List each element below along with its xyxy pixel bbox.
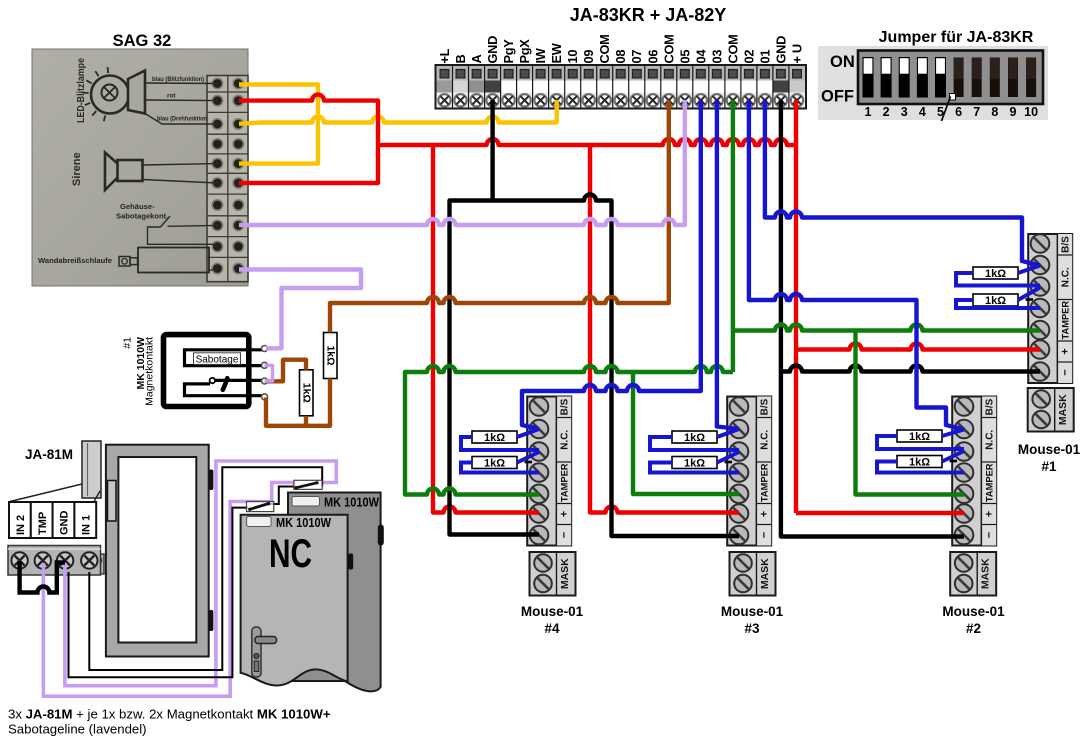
svg-text:1kΩ: 1kΩ: [301, 383, 313, 403]
resistor 1kOhm R1 at Mouse-01 #1: [973, 267, 1018, 280]
DIP switch 8: [990, 58, 1000, 98]
svg-text:Sabotagekont.: Sabotagekont.: [116, 212, 168, 221]
DIP switch 3: [899, 58, 909, 98]
JA-83KR strip screw terminals: [438, 94, 803, 106]
Mouse-01 #2 MASK terminal block: [950, 552, 996, 596]
detector terminal block Mouse-01 #2: [952, 397, 996, 546]
door frame: [106, 445, 209, 657]
wire: lavender MK terminal 2 to 3 jog: [265, 365, 273, 381]
caption text: [8, 707, 331, 737]
back door (dark) with MK 1010W: [288, 493, 384, 692]
wire: green branch to Mouse-01 #2 TAMPER: [856, 331, 965, 495]
control panel terminal strip JA-83KR + JA-82Y: [436, 5, 807, 109]
MK #1 reed switch: [185, 378, 264, 396]
Mouse-01 #2 title: [942, 604, 1005, 636]
wire: black GND rail to Mouse-01 #4 and #3 minus: [450, 195, 740, 537]
wire: black GND drop from terminal GND: [490, 100, 494, 201]
svg-text:Sirene: Sirene: [71, 152, 83, 186]
wire: red +U bus from SAG vertical to +U terminal: [378, 139, 796, 145]
wire: yellow SAG row3 to terminal EW: [239, 100, 557, 124]
svg-text:MASK: MASK: [559, 558, 571, 589]
wire: lavender SAG row10 to MK terminal 1: [239, 270, 361, 349]
svg-text:1kΩ: 1kΩ: [909, 457, 930, 469]
resistor 1kOhm R2 at Mouse-01 #4: [472, 457, 517, 470]
wire: blue R1 to N.C. terminals Mouse-01 #2: [877, 430, 964, 473]
svg-text:03: 03: [709, 50, 724, 64]
DIP switch 9: [1008, 58, 1018, 98]
svg-text:+ U: + U: [790, 44, 805, 63]
svg-text:PgX: PgX: [517, 39, 532, 64]
svg-text:B/S: B/S: [1060, 236, 1071, 253]
svg-text:N.C.: N.C.: [559, 430, 570, 450]
svg-text:Mouse-01: Mouse-01: [721, 604, 784, 619]
resistor R_B 1kOhm (vertical, to MK sabotage): [300, 370, 314, 416]
Mouse-01 #2 pin labels B/S N.C. TAMPER + -: [983, 398, 995, 538]
wire: black door contact loop from GND to switch A left: [69, 508, 249, 678]
DIP switch 5: [936, 58, 946, 98]
svg-text:3: 3: [901, 105, 908, 119]
wire: red +U vertical from terminal down: [794, 100, 798, 513]
resistor R_A 1kOhm (vertical, to COM bus): [324, 333, 338, 379]
minus polarity mark at Mouse-01 #2: [950, 460, 958, 463]
svg-text:IW: IW: [533, 47, 548, 63]
siren speaker symbol (Sirene): [71, 152, 217, 190]
Mouse-01 #3 title: [721, 604, 784, 636]
resistor 1kOhm R1 at Mouse-01 #4: [472, 431, 517, 444]
Mouse-01 #1 MASK terminal block: [1028, 388, 1074, 432]
wire: green branch to Mouse-01 #3 TAMPER: [633, 372, 739, 494]
svg-text:PgY: PgY: [501, 39, 516, 64]
svg-text:A: A: [469, 55, 484, 64]
svg-text:05: 05: [677, 50, 692, 64]
magnet contact switch A on NC door: [247, 502, 274, 512]
wire: red feed to Mouse-01 #1 +: [796, 344, 1040, 350]
wire: lavender sabotage bus SAG row8 to terminal 05: [239, 100, 685, 225]
svg-text:COM: COM: [725, 35, 740, 64]
door handle and lock: [252, 627, 277, 677]
svg-text:4: 4: [919, 105, 926, 119]
Mouse-01 #2 screws: [955, 397, 974, 544]
svg-text:TAMPER: TAMPER: [759, 463, 769, 502]
svg-text:LED-Blitzlampe: LED-Blitzlampe: [75, 58, 87, 123]
MK #1 terminal pins 1-4: [262, 346, 268, 400]
DIP switch 1: [863, 58, 873, 98]
magnet contact switch B on back door: [294, 480, 322, 489]
svg-text:01: 01: [757, 50, 772, 64]
JA-81M lock tab on frame: [91, 554, 104, 574]
detector terminal block Mouse-01 #1: [1028, 234, 1072, 383]
svg-text:+: +: [1059, 348, 1071, 354]
SAG 32 terminal contacts (2 columns x 10 rows): [212, 78, 243, 273]
svg-text:#3: #3: [744, 621, 760, 636]
wire: blue zone 03 to Mouse-01 #3 N.C.: [717, 100, 739, 429]
svg-text:blau (Blitzfunktion): blau (Blitzfunktion): [152, 76, 204, 83]
wire: blue zone 04 to Mouse-01 #4 N.C.: [522, 100, 701, 429]
svg-text:1: 1: [865, 105, 872, 119]
svg-text:Mouse-01: Mouse-01: [521, 604, 584, 619]
svg-text:+: +: [758, 511, 770, 517]
svg-text:B/S: B/S: [559, 398, 570, 415]
resistor 1kOhm R1 at Mouse-01 #2: [897, 430, 942, 443]
DIP switch 6: [954, 58, 964, 98]
wire: red SAG row2 to row6 via vertical x378: [239, 95, 378, 183]
resistor 1kOhm R1 at Mouse-01 #3: [672, 431, 717, 444]
svg-text:09: 09: [581, 50, 596, 64]
svg-text:10: 10: [565, 50, 580, 64]
svg-text:07: 07: [629, 50, 644, 64]
svg-text:MASK: MASK: [759, 558, 771, 589]
Mouse-01 #1 pin labels B/S N.C. TAMPER + -: [1059, 236, 1071, 376]
svg-text:1kΩ: 1kΩ: [985, 295, 1006, 307]
wire: black door contact loop from IN1 to switch B right: [89, 467, 322, 670]
minus polarity mark at Mouse-01 #1: [1026, 298, 1034, 301]
Mouse-01 #4 title: [521, 604, 584, 636]
svg-text:N.C.: N.C.: [1060, 267, 1071, 287]
svg-text:IN 2: IN 2: [15, 515, 27, 535]
svg-text:Mouse-01: Mouse-01: [1018, 442, 1081, 457]
wire: blue zone 01 to Mouse-01 #1 N.C.: [765, 100, 1040, 266]
svg-text:1kΩ: 1kΩ: [684, 432, 705, 444]
svg-text:−: −: [1059, 369, 1071, 375]
wire: green tamper bus right to Mouse-01 #1 TAMPER: [733, 325, 1040, 331]
svg-text:COM: COM: [661, 35, 676, 64]
svg-text:GND: GND: [59, 511, 71, 536]
JA-83KR terminal pin labels: [437, 35, 805, 64]
wire: green COM vertical: [731, 100, 735, 372]
wire: yellow SAG row1 to SAG row5: [239, 85, 318, 164]
lamp wire leads and labels: blau (Blitzfunktion) / rot / blau (Drehfunktion): [145, 83, 217, 124]
svg-text:IN 1: IN 1: [81, 515, 93, 535]
DIP switch numbers 1-10: [865, 105, 1039, 119]
wire: brown R_B top to MK terminal 3: [267, 360, 306, 382]
svg-text:SAG 32: SAG 32: [113, 32, 172, 50]
Mouse-01 #1 title: [1018, 442, 1081, 474]
svg-text:#1: #1: [1041, 459, 1057, 474]
resistor 1kOhm R2 at Mouse-01 #2: [897, 456, 942, 469]
svg-text:B/S: B/S: [984, 398, 995, 415]
resistor 1kOhm R2 at Mouse-01 #3: [672, 457, 717, 470]
Mouse-01 #3 pin labels B/S N.C. TAMPER + -: [758, 398, 770, 538]
svg-text:1kΩ: 1kΩ: [325, 345, 337, 365]
svg-text:blau (Drehfunktion: blau (Drehfunktion: [157, 116, 207, 123]
wall tear-off loop (Wandabreissschlaufe): [38, 248, 217, 273]
door frame strike plate: [108, 481, 117, 522]
resistor 1kOhm R2 at Mouse-01 #1: [973, 294, 1018, 307]
DIP switch 2: [881, 58, 891, 98]
svg-text:MASK: MASK: [1057, 394, 1069, 425]
wire: blue R1 to N.C. terminals Mouse-01 #4: [461, 429, 539, 473]
wire: red branch x590 to Mouse-01 #3 +: [590, 145, 739, 513]
wire: black jumper IN2 to GND with hop over TMP wire: [20, 561, 65, 593]
svg-text:6: 6: [955, 105, 962, 119]
wire: black GND2 vertical to Mouse-01 #2 minus: [781, 100, 964, 537]
wire: brown R_A bottom to MK terminal 4: [266, 379, 330, 426]
wire: lavender sabotage outer loop (JA-81M GND terminal to MK switch B): [65, 461, 336, 686]
DIP switch 4: [917, 58, 927, 98]
svg-text:3x JA-81M + je 1x bzw. 2x Magn: 3x JA-81M + je 1x bzw. 2x Magnetkontakt …: [8, 707, 331, 722]
MK #1 sabotage loop: [185, 350, 264, 366]
housing tamper switch (Gehaeuse-Sabotagekont.): [116, 202, 217, 244]
svg-text:rot: rot: [167, 93, 176, 100]
Mouse-01 #3 screws: [730, 397, 749, 544]
wire: lavender sabotage inner loop (JA-81M TMP terminal to MK switch B): [43, 483, 295, 697]
wire: green tamper bus left to Mouse-01 #4 TAMPER: [405, 366, 733, 495]
LED flash lamp symbol (LED-Blitzlampe): [75, 58, 145, 123]
svg-text:1kΩ: 1kΩ: [985, 268, 1006, 280]
Mouse-01 #3 MASK terminal block: [730, 552, 776, 596]
svg-text:+: +: [558, 511, 570, 517]
svg-text:02: 02: [741, 50, 756, 64]
svg-text:06: 06: [645, 50, 660, 64]
DIP switch slash marker between 5 and 6: [942, 94, 956, 122]
svg-text:+: +: [983, 511, 995, 517]
svg-text:#1: #1: [122, 337, 134, 349]
svg-text:N.C.: N.C.: [984, 430, 995, 450]
svg-text:1kΩ: 1kΩ: [684, 458, 705, 470]
svg-text:−: −: [758, 532, 770, 538]
Mouse-01 #1 screws: [1031, 234, 1050, 381]
siren module SAG 32: [32, 32, 248, 286]
svg-text:−: −: [983, 532, 995, 538]
svg-text:7: 7: [973, 105, 980, 119]
svg-text:TAMPER: TAMPER: [1060, 301, 1070, 340]
svg-text:9: 9: [1010, 105, 1017, 119]
svg-text:MK 1010W: MK 1010W: [324, 496, 379, 510]
JA-81M plastic bracket: [10, 441, 101, 502]
svg-text:+L: +L: [437, 48, 452, 63]
Mouse-01 #4 pin labels B/S N.C. TAMPER + -: [558, 398, 570, 538]
Mouse-01 #4 MASK terminal block: [530, 552, 576, 596]
svg-text:TMP: TMP: [37, 512, 49, 535]
svg-text:2: 2: [883, 105, 890, 119]
JA-81M screw terminal strip: [8, 546, 101, 576]
svg-text:GND: GND: [485, 36, 500, 64]
DIP switch 10: [1026, 58, 1036, 98]
svg-text:MASK: MASK: [980, 558, 992, 589]
svg-text:1kΩ: 1kΩ: [484, 458, 505, 470]
svg-text:EW: EW: [549, 42, 564, 63]
detector terminal block Mouse-01 #4: [527, 397, 571, 546]
wire: blue R1 to N.C. terminals Mouse-01 #3: [650, 429, 739, 473]
wire: brown R_B bottom junction: [304, 416, 308, 426]
svg-text:08: 08: [613, 50, 628, 64]
svg-text:#4: #4: [544, 621, 560, 636]
svg-text:NC: NC: [269, 532, 312, 576]
wire: black feed to Mouse-01 #1 minus: [781, 366, 1040, 372]
svg-text:B: B: [453, 55, 468, 64]
wire: blue R1 to N.C. terminals Mouse-01 #1: [956, 266, 1040, 309]
svg-text:#2: #2: [966, 621, 981, 636]
svg-text:Sabotage: Sabotage: [196, 354, 239, 365]
minus polarity mark at Mouse-01 #4: [525, 461, 533, 464]
wire: brown COM bus to resistor R_A: [330, 100, 669, 333]
svg-text:COM: COM: [597, 35, 612, 64]
wire: black link switch A right to switch B left: [269, 487, 295, 505]
wire: red branch x433 to Mouse-01 #4 +: [433, 145, 539, 513]
svg-text:OFF: OFF: [821, 88, 854, 106]
svg-text:Magnetkontakt: Magnetkontakt: [144, 337, 156, 406]
svg-text:TAMPER: TAMPER: [559, 463, 569, 502]
magnet contact MK 1010W #1 body: [122, 335, 249, 407]
svg-text:TAMPER: TAMPER: [984, 463, 994, 502]
svg-text:Gehäuse-: Gehäuse-: [120, 202, 155, 211]
svg-text:B/S: B/S: [759, 398, 770, 415]
svg-text:04: 04: [693, 49, 708, 64]
wire: blue zone 02 to Mouse-01 #2 N.C.: [749, 100, 964, 430]
svg-text:Jumper für JA-83KR: Jumper für JA-83KR: [879, 29, 1034, 46]
svg-text:−: −: [558, 532, 570, 538]
front door NC with MK 1010W: [241, 515, 354, 686]
svg-text:JA-83KR + JA-82Y: JA-83KR + JA-82Y: [570, 5, 727, 25]
detector terminal block Mouse-01 #3: [727, 397, 771, 546]
svg-text:1kΩ: 1kΩ: [909, 431, 930, 443]
svg-text:Sabotageline (lavendel): Sabotageline (lavendel): [8, 722, 147, 737]
door frame hinges: [209, 470, 214, 632]
svg-text:8: 8: [991, 105, 998, 119]
JA-81M terminal name boxes IN 2 / TMP / GND / IN 1: [9, 502, 96, 538]
wire: red feed to Mouse-01 #2 +: [796, 511, 964, 515]
svg-text:Mouse-01: Mouse-01: [942, 604, 1005, 619]
svg-text:GND: GND: [773, 36, 788, 64]
svg-text:Wandabreißschlaufe: Wandabreißschlaufe: [38, 256, 112, 265]
DIP switch 7: [972, 58, 982, 98]
svg-text:1kΩ: 1kΩ: [484, 432, 505, 444]
minus polarity mark at Mouse-01 #3: [725, 461, 733, 464]
DIP switch block: Jumper fuer JA-83KR: [818, 29, 1048, 120]
svg-text:MK 1010W: MK 1010W: [276, 516, 331, 530]
MK #1 Sabotage label: [194, 353, 241, 366]
Mouse-01 #4 screws: [530, 397, 549, 544]
svg-text:JA-81M: JA-81M: [25, 447, 73, 462]
svg-text:ON: ON: [830, 53, 855, 71]
svg-text:N.C.: N.C.: [759, 430, 770, 450]
svg-text:10: 10: [1024, 105, 1038, 119]
